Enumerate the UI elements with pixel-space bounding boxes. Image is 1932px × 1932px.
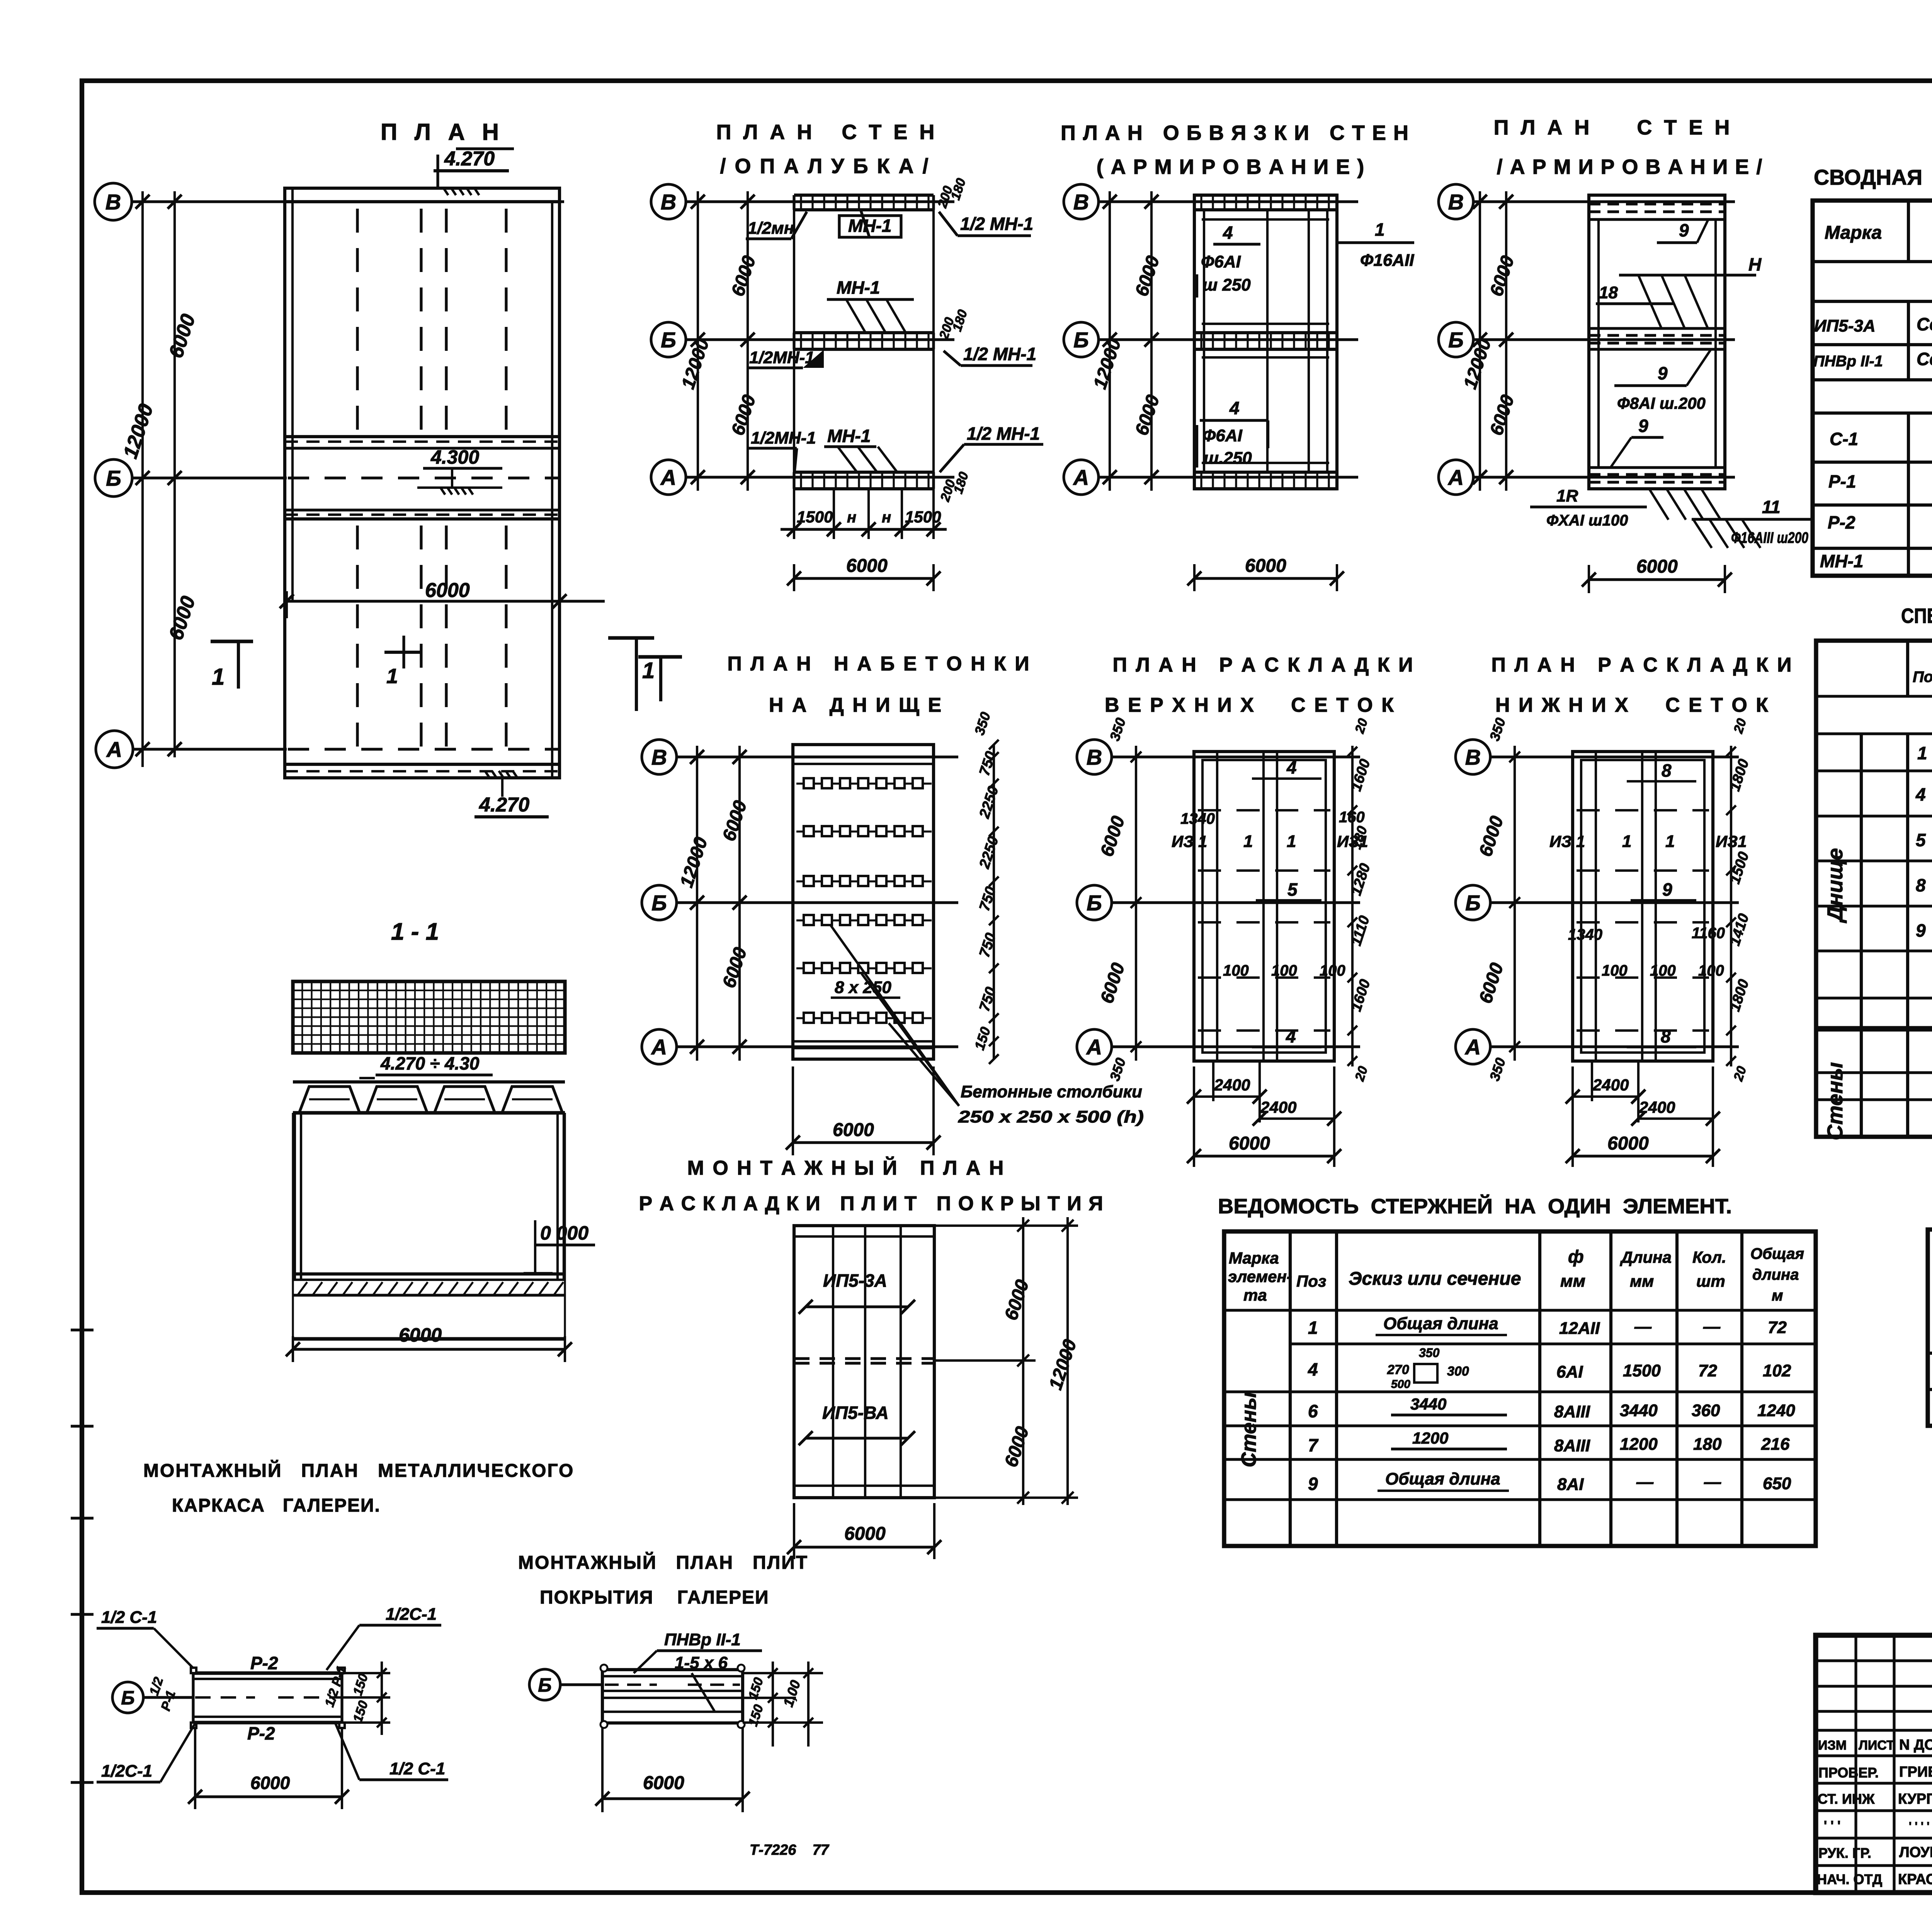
svg-text:/ А Р М И Р О В А Н И Е /: / А Р М И Р О В А Н И Е / (1497, 155, 1763, 179)
svg-text:Р-2: Р-2 (247, 1723, 275, 1743)
svg-text:12АII: 12АII (1559, 1319, 1600, 1338)
svg-text:НАЧ. ОТД: НАЧ. ОТД (1817, 1871, 1882, 1887)
svg-text:1R: 1R (1556, 486, 1578, 505)
svg-text:мм: мм (1630, 1272, 1654, 1290)
svg-text:6000: 6000 (643, 1773, 684, 1793)
svg-text:П Л А Н Р А С К Л А Д К И: П Л А Н Р А С К Л А Д К И (1113, 654, 1415, 676)
svg-text:Марка: Марка (1825, 223, 1882, 243)
svg-text:4.270: 4.270 (444, 148, 495, 170)
svg-text:МОНТАЖНЫЙ ПЛАН ПЛИТ: МОНТАЖНЫЙ ПЛАН ПЛИТ (518, 1552, 808, 1573)
svg-text:А: А (1447, 465, 1464, 490)
svg-text:—: — (1704, 1473, 1721, 1492)
svg-text:350: 350 (1419, 1346, 1440, 1360)
svg-text:9: 9 (1679, 220, 1689, 240)
svg-text:4: 4 (1286, 757, 1297, 777)
svg-text:6000: 6000 (1607, 1133, 1649, 1154)
svg-text:ПНВр II-1: ПНВр II-1 (664, 1630, 741, 1649)
svg-text:СВОДНАЯ СПЕЦИФИКАЦИЯ ЖЕЛЕЗОБ: СВОДНАЯ СПЕЦИФИКАЦИЯ ЖЕЛЕЗОБЕТОННЫХ И СТ… (1814, 165, 1932, 189)
svg-text:Р А С К Л А Д К И П Л И Т: Р А С К Л А Д К И П Л И Т П О К Р Ы Т И … (639, 1192, 1104, 1215)
svg-text:С-1: С-1 (1830, 429, 1858, 449)
svg-text:Стены: Стены (1823, 1062, 1847, 1140)
svg-text:Н: Н (1748, 254, 1762, 274)
svg-text:ЛИСТ: ЛИСТ (1859, 1738, 1895, 1753)
svg-text:В: В (1073, 190, 1089, 214)
svg-text:П Л А Н С Т Е Н: П Л А Н С Т Е Н (716, 121, 938, 144)
svg-text:КАРКАСА ГАЛЕРЕИ.: КАРКАСА ГАЛЕРЕИ. (172, 1495, 381, 1516)
svg-text:100: 100 (1271, 962, 1297, 979)
svg-text:9: 9 (1916, 920, 1926, 940)
svg-text:—: — (1636, 1473, 1654, 1492)
svg-text:1500: 1500 (797, 508, 833, 526)
svg-text:6000: 6000 (1229, 1133, 1270, 1154)
svg-text:100: 100 (1602, 962, 1628, 979)
svg-text:9: 9 (1658, 363, 1668, 383)
svg-text:1: 1 (1375, 219, 1385, 240)
svg-text:6АI: 6АI (1556, 1362, 1583, 1381)
svg-text:В: В (105, 190, 121, 214)
svg-text:П Л А Н С Т Е Н: П Л А Н С Т Е Н (1494, 116, 1733, 139)
svg-text:9: 9 (1638, 416, 1648, 436)
svg-text:Длина: Длина (1620, 1248, 1672, 1266)
svg-text:1: 1 (386, 665, 398, 688)
svg-text:Б: Б (651, 891, 667, 915)
svg-text:( А Р М И Р О В А Н И Е ): ( А Р М И Р О В А Н И Е ) (1097, 155, 1365, 179)
svg-text:П Л А Н О Б В Я З К И С Т: П Л А Н О Б В Я З К И С Т Е Н (1061, 121, 1409, 145)
svg-text:100: 100 (1698, 962, 1724, 979)
svg-text:КУРГАНОВА: КУРГАНОВА (1898, 1791, 1932, 1807)
svg-text:6000: 6000 (399, 1324, 442, 1346)
svg-text:7: 7 (1308, 1435, 1319, 1455)
svg-text:4.300: 4.300 (430, 446, 479, 468)
svg-text:В: В (661, 190, 676, 214)
svg-text:1160: 1160 (1692, 925, 1725, 942)
svg-text:ПОКРЫТИЯ ГАЛЕРЕИ: ПОКРЫТИЯ ГАЛЕРЕИ (540, 1587, 769, 1608)
svg-text:Поз: Поз (1913, 668, 1932, 685)
svg-text:5: 5 (1916, 830, 1926, 850)
svg-text:100: 100 (1320, 962, 1345, 979)
svg-text:1200: 1200 (1620, 1435, 1658, 1454)
svg-text:6000: 6000 (425, 579, 470, 602)
svg-text:Бетонные столбики: Бетонные столбики (961, 1082, 1142, 1101)
svg-text:СПЕЦИФИКАЦИЯ МАРОК АРМАТУРН: СПЕЦИФИКАЦИЯ МАРОК АРМАТУРНЫХ ИЗДЕЛИЙ (1901, 604, 1932, 628)
svg-text:Ф6АI: Ф6АI (1202, 426, 1243, 445)
svg-text:Н И Ж Н И Х С Е Т О К: Н И Ж Н И Х С Е Т О К (1495, 694, 1770, 716)
svg-text:П Л А Н Н А Б Е Т О Н К И: П Л А Н Н А Б Е Т О Н К И (727, 653, 1031, 675)
svg-text:А: А (1073, 465, 1089, 490)
svg-text:мм: мм (1560, 1272, 1585, 1291)
svg-text:Эскиз или сечение: Эскиз или сечение (1349, 1269, 1521, 1289)
svg-text:КРАСАВИН: КРАСАВИН (1898, 1871, 1932, 1888)
svg-text:В: В (1448, 190, 1464, 214)
svg-text:РУК. ГР.: РУК. ГР. (1818, 1845, 1871, 1861)
svg-text:72: 72 (1698, 1361, 1717, 1380)
svg-text:МН-1: МН-1 (848, 216, 891, 236)
svg-text:6: 6 (1308, 1401, 1318, 1421)
svg-text:П Л А Н: П Л А Н (381, 119, 504, 145)
svg-text:1200: 1200 (1412, 1429, 1448, 1447)
svg-text:6000: 6000 (1245, 556, 1286, 576)
svg-text:Днище: Днище (1823, 848, 1847, 923)
svg-text:1/2мн: 1/2мн (748, 219, 794, 238)
svg-text:1: 1 (1665, 832, 1675, 851)
svg-text:ИП5-ВА: ИП5-ВА (822, 1403, 889, 1423)
svg-text:Б: Б (661, 328, 676, 352)
svg-text:1: 1 (1243, 832, 1253, 851)
svg-text:Р-2: Р-2 (1828, 512, 1855, 532)
svg-text:1/2С-1: 1/2С-1 (386, 1605, 437, 1624)
svg-text:102: 102 (1763, 1361, 1791, 1380)
svg-text:9: 9 (1662, 879, 1672, 900)
svg-text:1: 1 (1308, 1318, 1318, 1338)
svg-text:1/2МН-1: 1/2МН-1 (751, 429, 816, 447)
svg-text:4.270 ÷ 4.30: 4.270 ÷ 4.30 (380, 1053, 480, 1073)
svg-text:1: 1 (212, 664, 224, 690)
svg-text:1/2С-1: 1/2С-1 (101, 1762, 152, 1781)
svg-text:МН-1: МН-1 (1820, 551, 1863, 571)
svg-text:ЛОУЦКЕР: ЛОУЦКЕР (1899, 1844, 1932, 1861)
svg-text:А: А (651, 1035, 667, 1059)
svg-text:6000: 6000 (846, 556, 888, 576)
svg-text:та: та (1243, 1286, 1267, 1304)
svg-text:А: А (660, 465, 676, 490)
svg-text:ГРИБКОВА: ГРИБКОВА (1899, 1764, 1932, 1780)
svg-text:1500: 1500 (1623, 1361, 1661, 1380)
svg-text:360: 360 (1692, 1401, 1720, 1420)
svg-text:6000: 6000 (250, 1773, 290, 1793)
svg-text:ИЗ 1: ИЗ 1 (1172, 832, 1207, 850)
svg-text:4: 4 (1229, 398, 1240, 418)
svg-text:ш 250: ш 250 (1202, 276, 1251, 294)
svg-text:300: 300 (1447, 1364, 1469, 1379)
svg-text:4.270: 4.270 (479, 794, 529, 816)
svg-text:8АIII: 8АIII (1554, 1436, 1590, 1455)
svg-text:длина: длина (1752, 1266, 1799, 1283)
svg-text:МН-1: МН-1 (837, 277, 880, 298)
svg-text:ф: ф (1568, 1247, 1584, 1267)
svg-text:Б: Б (1087, 891, 1102, 915)
svg-text:2400: 2400 (1214, 1076, 1250, 1094)
svg-text:1/2 МН-1: 1/2 МН-1 (963, 344, 1036, 364)
svg-text:—: — (1634, 1317, 1652, 1336)
svg-text:Общая длина: Общая длина (1385, 1469, 1500, 1488)
svg-text:ПРОВЕР.: ПРОВЕР. (1818, 1765, 1879, 1781)
svg-text:СТ. ИНЖ: СТ. ИНЖ (1818, 1791, 1875, 1807)
svg-text:Поз: Поз (1296, 1272, 1326, 1290)
svg-text:6000: 6000 (844, 1524, 886, 1544)
svg-text:Р-2: Р-2 (250, 1653, 278, 1673)
svg-text:1/2 С-1: 1/2 С-1 (389, 1759, 445, 1778)
svg-text:100: 100 (1223, 962, 1249, 979)
svg-text:8АIII: 8АIII (1554, 1402, 1590, 1421)
svg-text:Общая: Общая (1750, 1245, 1804, 1262)
svg-text:Серия ИИ-24-2 ;КЖ-9: Серия ИИ-24-2 ;КЖ-9 (1917, 314, 1932, 334)
svg-text:Серия 1.465-1 вып.3: Серия 1.465-1 вып.3 (1917, 349, 1932, 369)
svg-text:100: 100 (1650, 962, 1676, 979)
svg-text:Ф16АII: Ф16АII (1360, 251, 1414, 270)
svg-text:650: 650 (1763, 1474, 1791, 1493)
svg-text:1: 1 (1287, 832, 1296, 851)
svg-text:Т-7226 77: Т-7226 77 (750, 1842, 830, 1858)
svg-text:9: 9 (1308, 1474, 1318, 1494)
svg-text:Стены: Стены (1237, 1392, 1260, 1467)
svg-text:Б: Б (1448, 328, 1464, 352)
svg-text:В: В (651, 745, 667, 769)
svg-text:ВЕДОМОСТЬ СТЕРЖНЕЙ НА ОДИН: ВЕДОМОСТЬ СТЕРЖНЕЙ НА ОДИН ЭЛЕМЕНТ. (1218, 1194, 1732, 1218)
svg-text:1/2 С-1: 1/2 С-1 (101, 1608, 157, 1627)
svg-text:Ф8АI ш.200: Ф8АI ш.200 (1617, 394, 1706, 412)
svg-text:216: 216 (1761, 1435, 1790, 1454)
svg-text:Р-1: Р-1 (1828, 471, 1856, 492)
svg-text:м: м (1772, 1287, 1783, 1304)
svg-text:1: 1 (1917, 743, 1927, 763)
svg-text:П Л А Н Р А С К Л А Д К И: П Л А Н Р А С К Л А Д К И (1492, 654, 1793, 676)
svg-text:А: А (1464, 1035, 1481, 1059)
svg-text:4: 4 (1915, 784, 1926, 804)
svg-text:' ' ': ' ' ' (1824, 1818, 1840, 1833)
svg-text:18: 18 (1599, 283, 1618, 302)
svg-text:н: н (882, 509, 891, 526)
svg-text:ИЗМ: ИЗМ (1818, 1738, 1847, 1753)
svg-text:Марка: Марка (1229, 1249, 1279, 1267)
svg-text:ПНВр II-1: ПНВр II-1 (1813, 353, 1883, 370)
svg-text:1/2 МН-1: 1/2 МН-1 (960, 214, 1033, 234)
svg-text:В Е Р Х Н И Х С Е Т О К: В Е Р Х Н И Х С Е Т О К (1105, 694, 1395, 716)
svg-text:Б: Б (121, 1687, 134, 1709)
svg-text:2400: 2400 (1592, 1076, 1629, 1094)
svg-text:3440: 3440 (1410, 1395, 1446, 1413)
svg-text:шт: шт (1696, 1272, 1725, 1290)
svg-text:Б: Б (538, 1674, 551, 1696)
svg-text:1: 1 (1622, 832, 1631, 851)
svg-text:8 х 250: 8 х 250 (835, 978, 891, 997)
svg-text:6000: 6000 (833, 1120, 874, 1140)
svg-text:1240: 1240 (1757, 1401, 1795, 1420)
svg-text:М О Н Т А Ж Н Ы Й П Л А Н: М О Н Т А Ж Н Ы Й П Л А Н (687, 1156, 1005, 1179)
svg-text:270: 270 (1387, 1362, 1409, 1377)
svg-text:72: 72 (1768, 1318, 1787, 1337)
svg-text:А: А (1086, 1035, 1102, 1059)
svg-text:Б: Б (1465, 891, 1481, 915)
svg-text:ИП5-3А: ИП5-3А (1814, 316, 1876, 335)
svg-text:8: 8 (1916, 875, 1926, 895)
svg-text:1: 1 (642, 658, 655, 683)
svg-text:Н А Д Н И Щ Е: Н А Д Н И Щ Е (769, 694, 943, 716)
svg-text:В: В (1465, 745, 1481, 769)
svg-text:1/2 МН-1: 1/2 МН-1 (967, 423, 1040, 444)
svg-text:1/2МН-1: 1/2МН-1 (749, 348, 815, 367)
svg-text:А: А (106, 737, 122, 762)
svg-text:5: 5 (1287, 879, 1298, 900)
svg-text:1340: 1340 (1180, 810, 1215, 827)
svg-text:' ' ' ' ;: ' ' ' ' ; (1909, 1820, 1932, 1833)
svg-text:8АI: 8АI (1557, 1475, 1584, 1494)
svg-text:1 - 1: 1 - 1 (391, 918, 439, 945)
svg-text:Общая длина: Общая длина (1383, 1314, 1498, 1333)
svg-text:8: 8 (1661, 1026, 1671, 1046)
svg-text:Ф6АI: Ф6АI (1201, 252, 1241, 271)
svg-text:180: 180 (1693, 1435, 1722, 1454)
svg-text:4: 4 (1223, 223, 1233, 243)
svg-text:ФХАI ш100: ФХАI ш100 (1546, 512, 1628, 529)
svg-text:ИЗ 1: ИЗ 1 (1549, 832, 1585, 850)
svg-text:В: В (1087, 745, 1102, 769)
svg-text:11: 11 (1762, 497, 1781, 517)
svg-text:N ДОКУМ.: N ДОКУМ. (1899, 1737, 1932, 1753)
svg-text:4: 4 (1286, 1026, 1296, 1046)
svg-text:4: 4 (1308, 1359, 1318, 1379)
svg-text:6000: 6000 (1636, 556, 1678, 577)
svg-text:1340: 1340 (1568, 926, 1602, 943)
svg-text:Кол.: Кол. (1692, 1248, 1726, 1266)
svg-text:/ О П А Л У Б К А /: / О П А Л У Б К А / (720, 155, 930, 178)
svg-text:8: 8 (1662, 760, 1672, 781)
svg-text:1500: 1500 (905, 508, 941, 526)
svg-text:н: н (847, 509, 856, 526)
svg-text:Б: Б (1073, 328, 1089, 352)
svg-text:3440: 3440 (1620, 1401, 1658, 1420)
svg-text:МОНТАЖНЫЙ ПЛАН МЕТАЛЛИЧЕСК: МОНТАЖНЫЙ ПЛАН МЕТАЛЛИЧЕСКОГО (143, 1460, 574, 1481)
svg-text:МН-1: МН-1 (827, 426, 871, 446)
svg-text:ИП5-3А: ИП5-3А (823, 1270, 887, 1291)
svg-text:Б: Б (106, 466, 121, 490)
svg-text:500: 500 (1391, 1378, 1410, 1391)
svg-text:—: — (1703, 1317, 1721, 1336)
svg-text:элемен-: элемен- (1228, 1267, 1292, 1286)
svg-text:ш.250: ш.250 (1204, 449, 1252, 468)
svg-text:250 х 250 х 500 (h): 250 х 250 х 500 (h) (958, 1107, 1144, 1126)
